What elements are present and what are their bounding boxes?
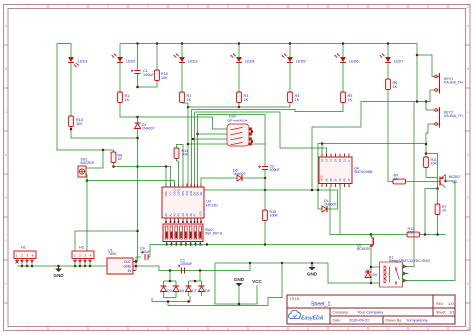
resistor R14 oscillator xyxy=(177,159,179,188)
svg-text:GND: GND xyxy=(53,273,64,278)
resistor R8 xyxy=(111,152,116,163)
wire DS4 in3 xyxy=(193,138,227,140)
svg-text:BC557: BC557 xyxy=(449,175,461,179)
svg-text:D5: D5 xyxy=(180,289,184,293)
svg-text:Drawn By:: Drawn By: xyxy=(386,319,403,323)
svg-text:D8: D8 xyxy=(196,192,200,196)
junction gnd3 xyxy=(311,262,314,265)
diode D3 xyxy=(163,281,165,286)
junction U3 pin ends xyxy=(165,221,167,223)
svg-text:100uF: 100uF xyxy=(270,168,281,172)
junction C3 right xyxy=(199,269,202,272)
svg-text:D11: D11 xyxy=(185,190,189,195)
wire R1 top xyxy=(119,63,121,92)
switch KEY1 xyxy=(435,75,438,78)
svg-text:7805: 7805 xyxy=(108,252,116,256)
svg-text:VCC: VCC xyxy=(320,175,324,181)
svg-text:RelaySPMT-12VDC-SHG: RelaySPMT-12VDC-SHG xyxy=(389,259,430,263)
wire R13 to D1 node xyxy=(71,127,138,138)
junction D6 end xyxy=(264,177,267,180)
junction key2 tap xyxy=(425,100,428,103)
wire VDD riser xyxy=(165,167,167,188)
svg-text:A8: A8 xyxy=(199,192,203,196)
junction R15 bus xyxy=(264,243,267,246)
svg-text:GND: GND xyxy=(123,265,131,269)
diode D9 flyback xyxy=(367,270,370,273)
svg-text:3Y: 3Y xyxy=(334,178,337,181)
svg-text:A4: A4 xyxy=(181,213,185,217)
wire KEY2 top xyxy=(426,102,435,111)
svg-text:11: 11 xyxy=(426,5,430,9)
relay pins right xyxy=(403,265,409,282)
diode D1 xyxy=(135,122,141,124)
svg-text:EasyEDA: EasyEDA xyxy=(301,316,324,322)
svg-text:SN74G08N: SN74G08N xyxy=(354,170,373,174)
svg-text:2A: 2A xyxy=(334,159,337,162)
diode D5 xyxy=(175,281,177,286)
wire R7 bottom xyxy=(437,215,439,235)
wire R6 top xyxy=(387,63,389,79)
junction rail y107 xyxy=(187,106,190,109)
svg-text:Your Company: Your Company xyxy=(357,310,383,315)
svg-text:IN: IN xyxy=(128,269,132,273)
wire D6 to C2 node xyxy=(243,177,266,179)
resistor R3 xyxy=(237,92,242,103)
svg-text:2020-09-22: 2020-09-22 xyxy=(349,318,370,323)
wire gnd to relay xyxy=(328,263,371,283)
svg-text:KA-6x6_TH: KA-6x6_TH xyxy=(444,81,463,85)
svg-text:1K: 1K xyxy=(125,98,130,102)
svg-text:5: 5 xyxy=(187,327,189,331)
wire rail y109 to R5 xyxy=(192,103,344,112)
wire C2 to y190 xyxy=(264,178,266,190)
wire rail y112 to U4 xyxy=(195,112,327,157)
wire buzzer pin minus to H2 xyxy=(86,175,87,252)
svg-text:1K: 1K xyxy=(244,98,249,102)
svg-text:A5: A5 xyxy=(185,213,189,217)
junction C3 left xyxy=(169,269,172,272)
svg-text:6: 6 xyxy=(227,5,229,9)
junction R3 rail xyxy=(238,106,241,109)
wire R8 bottom xyxy=(113,163,115,167)
svg-text:LED2: LED2 xyxy=(126,60,136,64)
wire R11 bypass xyxy=(426,154,438,189)
svg-text:Sheet_1: Sheet_1 xyxy=(311,302,330,308)
resistor R5 xyxy=(341,92,346,103)
junction bottom2 xyxy=(187,300,190,303)
junction LED7 xyxy=(387,42,390,45)
wire R7 top xyxy=(437,189,439,205)
svg-text:4Y: 4Y xyxy=(348,178,351,181)
junction rail2 xyxy=(194,280,197,283)
wire bridge riser1 xyxy=(169,271,171,282)
svg-text:SW_DIP-8: SW_DIP-8 xyxy=(205,232,222,236)
wire H1 pins to bus xyxy=(21,262,23,266)
junction LED3 xyxy=(181,42,184,45)
wire R2 top xyxy=(181,63,183,92)
wire U3 pin riser b xyxy=(191,110,193,188)
junction DS4 pad2 xyxy=(251,130,254,133)
svg-text:GND: GND xyxy=(234,277,245,282)
wire VCC top bus xyxy=(120,43,417,45)
svg-text:11: 11 xyxy=(426,327,430,331)
resistor R15 xyxy=(263,210,268,221)
LED LED5 xyxy=(287,57,293,62)
svg-text:2: 2 xyxy=(67,5,69,9)
wire bridge rail1 xyxy=(164,280,177,282)
junction D1 y138 xyxy=(136,137,139,140)
resistor R1 xyxy=(118,92,123,103)
svg-text:DIN: DIN xyxy=(181,191,185,196)
svg-text:4: 4 xyxy=(147,5,149,9)
svg-text:VCC: VCC xyxy=(252,279,262,284)
wire D4 left xyxy=(318,190,322,209)
wire U1 pins right xyxy=(133,262,136,271)
svg-text:10K: 10K xyxy=(161,76,168,80)
svg-text:100uF: 100uF xyxy=(140,250,151,254)
ic U4 SN74G08N xyxy=(319,157,352,184)
junction bus x207 xyxy=(206,243,209,246)
svg-text:1.0: 1.0 xyxy=(448,301,454,306)
svg-text:LED6: LED6 xyxy=(349,60,359,64)
junction DS4 pad4 xyxy=(251,140,254,143)
diode D7 xyxy=(188,281,190,286)
svg-text:1K: 1K xyxy=(348,98,353,102)
resistor R6 xyxy=(386,79,391,90)
wire main gnd bus xyxy=(17,265,104,267)
junction bridge out xyxy=(167,300,170,303)
svg-text:HT12D: HT12D xyxy=(206,203,218,207)
connector H2 xyxy=(72,251,94,259)
svg-text:KA-6x6_TH: KA-6x6_TH xyxy=(444,114,463,118)
junction y143 x322 xyxy=(321,142,324,145)
svg-text:Sheet:: Sheet: xyxy=(436,311,446,315)
svg-text:F: F xyxy=(5,239,7,243)
LED LED1 xyxy=(68,57,74,62)
svg-text:VDD: VDD xyxy=(164,191,168,197)
svg-text:tomyantony: tomyantony xyxy=(407,318,428,323)
transistor Q2 BC547B xyxy=(372,238,374,246)
wire R6 to R9 xyxy=(388,90,393,182)
svg-text:1: 1 xyxy=(27,5,29,9)
svg-text:9: 9 xyxy=(347,5,349,9)
svg-text:10K: 10K xyxy=(431,162,438,166)
svg-text:D10: D10 xyxy=(189,190,193,195)
wire LED2 anode xyxy=(119,44,121,58)
wire U1 gnd to C3 rail xyxy=(136,266,250,271)
junction U1 gnd xyxy=(135,265,138,268)
junction D4 left xyxy=(317,189,320,192)
diode D6 xyxy=(237,175,242,181)
svg-text:H2: H2 xyxy=(79,246,84,250)
junction x425 y234 xyxy=(424,233,427,236)
buzzer SG1 xyxy=(78,166,86,177)
dip switch DS4 xyxy=(227,124,249,146)
resistor R12 xyxy=(407,232,420,237)
svg-text:A3: A3 xyxy=(177,213,181,217)
svg-text:1/1: 1/1 xyxy=(449,311,454,315)
junction riser c DS4 xyxy=(192,138,195,141)
wire KEY1 top xyxy=(417,55,435,77)
wire bus to KEY1 xyxy=(416,44,418,102)
dip switch SW2 DIP-8 xyxy=(163,224,203,242)
junction x312 xyxy=(311,189,314,192)
svg-text:TITLE:: TITLE: xyxy=(290,297,301,301)
junction Q2 collector xyxy=(370,233,373,236)
junction D1 y166 xyxy=(136,165,139,168)
title block texts xyxy=(290,297,455,323)
svg-text:100: 100 xyxy=(76,122,82,126)
capacitor C1 xyxy=(137,44,139,71)
connector H1 xyxy=(14,251,36,259)
junction key1 tap xyxy=(416,54,419,57)
svg-text:100K: 100K xyxy=(270,214,279,218)
wire Q2 collector stub xyxy=(370,235,372,238)
svg-text:G: G xyxy=(348,160,351,162)
junction C1 bus xyxy=(136,42,139,45)
wire rail to gnd line xyxy=(249,263,251,271)
svg-text:4A: 4A xyxy=(339,178,342,181)
svg-text:1A: 1A xyxy=(321,159,324,162)
svg-text:100uF: 100uF xyxy=(143,73,154,77)
wire y144 to U4 input xyxy=(322,144,426,158)
LED LED2 xyxy=(117,57,123,62)
junction LED6 xyxy=(342,42,345,45)
svg-text:Company:: Company: xyxy=(333,311,349,315)
resistor R7 xyxy=(435,204,440,215)
wire C2 bottom xyxy=(264,170,266,178)
svg-text:4B: 4B xyxy=(343,178,346,181)
resistor R13 xyxy=(69,116,74,127)
svg-text:A1: A1 xyxy=(169,213,173,217)
wire y188 branch xyxy=(425,189,438,236)
wire KEY2 bottom to R11 xyxy=(426,124,435,157)
wire bridge rail2 xyxy=(189,280,202,282)
LED LED4 xyxy=(236,57,242,62)
wire vcc gnd stems xyxy=(215,263,257,304)
svg-text:D7: D7 xyxy=(192,289,196,293)
junction C1-D1 xyxy=(136,86,139,89)
svg-text:D9: D9 xyxy=(373,273,377,277)
wire U3 to D6 xyxy=(201,178,237,184)
wire DS4 pads to C2 xyxy=(251,143,265,145)
svg-text:3: 3 xyxy=(107,5,109,9)
svg-text:A6: A6 xyxy=(189,213,193,217)
svg-text:OSC2: OSC2 xyxy=(173,188,177,196)
svg-text:1K: 1K xyxy=(394,177,399,181)
svg-text:10K: 10K xyxy=(182,153,189,157)
svg-text:OSC1: OSC1 xyxy=(177,188,181,196)
svg-text:1K: 1K xyxy=(295,98,300,102)
svg-text:10: 10 xyxy=(386,5,390,9)
wire R9 to Q1 xyxy=(406,181,440,183)
svg-text:1000uF: 1000uF xyxy=(180,262,193,266)
wire R2 to riser xyxy=(182,102,188,105)
wire bridge out xyxy=(168,263,282,306)
svg-text:E: E xyxy=(467,196,469,200)
junction y263 xyxy=(249,262,252,265)
wire R15 top xyxy=(264,190,266,210)
svg-text:1Y: 1Y xyxy=(330,159,333,162)
svg-text:1N4007: 1N4007 xyxy=(142,127,155,131)
junction Q1 collector xyxy=(444,180,447,183)
resistor R11 xyxy=(424,157,429,168)
diode D8 xyxy=(201,281,203,286)
junction D1 y231 xyxy=(136,230,139,233)
svg-text:E: E xyxy=(5,196,7,200)
svg-text:1K: 1K xyxy=(118,157,123,161)
junction buzzer feed xyxy=(102,149,105,152)
junction y153 xyxy=(425,152,428,155)
svg-text:LED4: LED4 xyxy=(245,60,255,64)
wire LED5 anode xyxy=(289,44,291,58)
wire coil pins xyxy=(371,266,380,268)
ic U3 HT12D xyxy=(162,187,204,218)
transistor Q1 BC557 xyxy=(439,177,441,186)
svg-text:VSS: VSS xyxy=(199,211,203,216)
wire relay no contact xyxy=(409,102,415,267)
wire VDD supply y166 xyxy=(114,167,171,188)
svg-text:8: 8 xyxy=(307,5,309,9)
svg-text:1N4007: 1N4007 xyxy=(233,172,246,176)
junction x437 y234 xyxy=(436,233,439,236)
svg-text:2Y: 2Y xyxy=(343,159,346,162)
svg-text:1K: 1K xyxy=(442,209,447,213)
wire R5 top xyxy=(342,63,344,92)
wire D4 right xyxy=(328,190,338,209)
svg-text:OUT: OUT xyxy=(124,260,131,264)
wire bridge bottom1 xyxy=(164,296,177,298)
svg-text:LED5: LED5 xyxy=(296,60,306,64)
wire Q1 collector to relay xyxy=(409,175,456,281)
svg-text:A2: A2 xyxy=(173,213,177,217)
wire x318 drop xyxy=(318,144,322,191)
wire U1 out node xyxy=(135,257,137,271)
wire LED6 anode xyxy=(342,44,344,58)
relay K1 xyxy=(380,262,403,287)
junction rail1 xyxy=(169,280,172,283)
svg-text:A0: A0 xyxy=(164,213,168,217)
svg-text:1: 1 xyxy=(27,327,29,331)
svg-text:2: 2 xyxy=(67,327,69,331)
wire U4 out riser xyxy=(339,187,341,235)
wire buzzer feed xyxy=(89,150,103,168)
ground GND1 xyxy=(58,266,60,269)
svg-text:12: 12 xyxy=(466,327,470,331)
wire R15 bottom xyxy=(264,221,266,245)
wire R3 stub xyxy=(238,103,240,107)
wire dip bus to Q2 base xyxy=(150,244,373,246)
junction GND1 xyxy=(57,265,60,268)
junction coil top xyxy=(370,266,373,269)
svg-text:D3: D3 xyxy=(167,289,171,293)
svg-text:BUZZER: BUZZER xyxy=(81,161,95,165)
resistor R4 xyxy=(288,92,293,103)
wire dip pins to bus xyxy=(167,242,201,245)
junction R8 bottom xyxy=(112,165,115,168)
wire KEY1 bottom xyxy=(312,90,435,190)
junction y263 b xyxy=(281,262,284,265)
svg-text:DIP swit(4)I-04: DIP swit(4)I-04 xyxy=(228,119,248,123)
wire LED1 cathode xyxy=(70,63,72,116)
wire C1 bottom xyxy=(138,74,158,87)
wire bridge riser2 xyxy=(199,271,201,282)
wire Q2 emitter xyxy=(370,247,372,283)
wire D1 cathode node xyxy=(137,117,139,123)
svg-text:LED7: LED7 xyxy=(394,60,404,64)
wire y234 rail xyxy=(330,187,446,235)
wire rail y107 xyxy=(188,103,290,107)
svg-text:3B: 3B xyxy=(330,178,333,181)
wire R11 to Q1 base xyxy=(426,168,438,178)
svg-text:H1: H1 xyxy=(21,246,26,250)
title block xyxy=(287,295,455,324)
junction key rail xyxy=(416,100,419,103)
junction LED5 xyxy=(289,42,292,45)
junction R7 top xyxy=(436,187,439,190)
wire gnd rail y231 xyxy=(75,230,138,232)
wire LED1 loop xyxy=(57,44,71,58)
capacitor C3 xyxy=(181,268,183,274)
svg-text:D8: D8 xyxy=(205,289,209,293)
svg-text:1K: 1K xyxy=(393,85,398,89)
svg-text:REV: REV xyxy=(436,302,444,306)
svg-text:Q1: Q1 xyxy=(452,180,457,184)
svg-text:2B: 2B xyxy=(339,159,342,162)
wire H2 pin1 riser xyxy=(74,231,76,251)
wire gnd rail y263 xyxy=(215,262,328,264)
svg-text:1B: 1B xyxy=(325,159,328,162)
wire R4 top xyxy=(289,63,291,92)
svg-text:4: 4 xyxy=(147,327,149,331)
svg-text:3: 3 xyxy=(107,327,109,331)
wire U1 in left xyxy=(104,265,107,267)
diode D4 xyxy=(322,206,327,212)
wire LED7 anode xyxy=(387,44,389,58)
junction VDD riser xyxy=(165,165,168,168)
ground GND3 xyxy=(311,263,313,265)
junction coil bottom xyxy=(370,282,373,285)
wire bridge bottom2 xyxy=(152,296,190,302)
junction buzzer VT xyxy=(86,179,89,182)
svg-text:6: 6 xyxy=(227,327,229,331)
svg-text:LED1: LED1 xyxy=(78,60,88,64)
wire buzzer pin plus xyxy=(86,167,89,169)
wire R1 to DS4 rail y117 xyxy=(120,103,227,129)
capacitor C2 xyxy=(264,144,266,167)
wire DS4 in4 xyxy=(188,143,227,145)
svg-text:7: 7 xyxy=(267,5,269,9)
svg-text:A7: A7 xyxy=(193,213,197,217)
junction LED4 xyxy=(238,42,241,45)
LED LED6 xyxy=(340,57,346,62)
svg-text:7: 7 xyxy=(267,327,269,331)
svg-text:Date:: Date: xyxy=(333,319,342,323)
wire U3 pin riser d xyxy=(197,115,199,188)
svg-text:B: B xyxy=(5,67,7,71)
junction y144 xyxy=(425,143,428,146)
svg-text:1K: 1K xyxy=(187,98,192,102)
junction riser d DS4 xyxy=(196,133,199,136)
wire LED3 anode xyxy=(181,44,183,58)
wire DS4 in2 xyxy=(198,133,228,135)
wire rail y114 to C2 column xyxy=(198,115,266,145)
ic U1 7805 xyxy=(107,258,133,274)
wire LED4 anode xyxy=(238,44,240,58)
LED LED7 xyxy=(385,57,391,62)
svg-text:3A: 3A xyxy=(325,178,328,181)
svg-text:5: 5 xyxy=(187,5,189,9)
